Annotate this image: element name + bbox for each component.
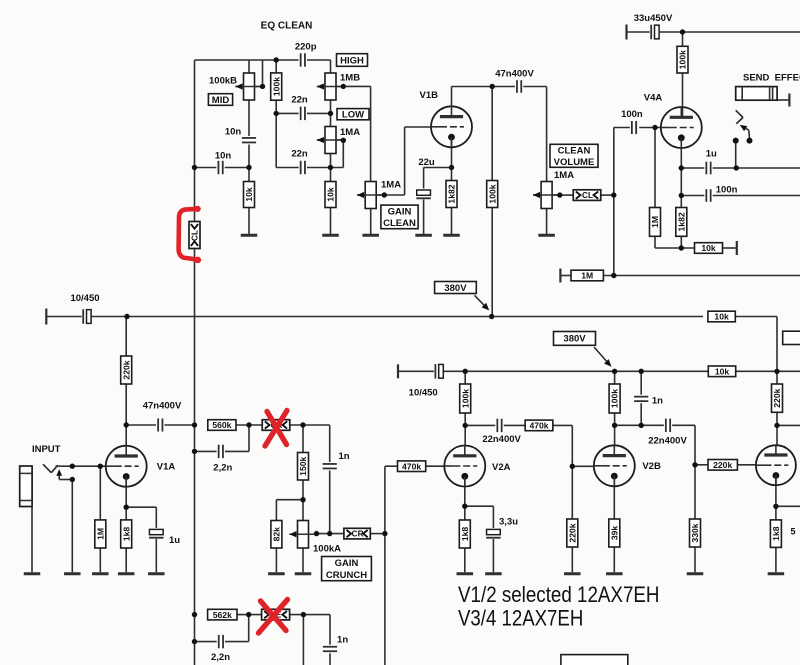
svg-text:1u: 1u	[169, 535, 180, 546]
svg-text:V1/2 selected 12AX7EH: V1/2 selected 12AX7EH	[458, 582, 660, 607]
svg-text:10k: 10k	[714, 312, 729, 322]
svg-text:1M: 1M	[581, 271, 593, 281]
svg-text:10k: 10k	[244, 187, 254, 202]
svg-text:V1B: V1B	[420, 90, 439, 101]
svg-text:220k: 220k	[772, 388, 782, 407]
svg-text:CLEAN: CLEAN	[558, 145, 591, 156]
svg-text:150k: 150k	[298, 456, 308, 475]
svg-text:100k: 100k	[678, 50, 688, 69]
svg-text:1MA: 1MA	[381, 180, 401, 191]
svg-text:V2B: V2B	[642, 461, 661, 472]
svg-text:10k: 10k	[701, 243, 716, 253]
svg-text:V1A: V1A	[157, 462, 176, 473]
svg-text:LOW: LOW	[342, 110, 364, 121]
svg-text:3,3u: 3,3u	[499, 517, 518, 528]
svg-text:22n400V: 22n400V	[482, 434, 521, 445]
svg-text:470k: 470k	[529, 421, 548, 431]
svg-text:100k: 100k	[610, 389, 620, 408]
svg-text:220p: 220p	[295, 41, 317, 52]
svg-text:39k: 39k	[609, 526, 619, 541]
svg-text:CR: CR	[352, 530, 364, 539]
svg-text:SEND EFFECT: SEND EFFECT	[743, 72, 800, 83]
svg-text:22u: 22u	[418, 157, 435, 168]
svg-text:1M: 1M	[650, 216, 660, 228]
svg-text:2,2n: 2,2n	[213, 462, 232, 473]
svg-text:10k: 10k	[326, 187, 336, 202]
svg-text:220k: 220k	[713, 460, 732, 470]
svg-text:HIGH: HIGH	[340, 55, 364, 66]
svg-text:1k8: 1k8	[121, 527, 131, 542]
svg-text:5: 5	[791, 527, 796, 537]
svg-text:CLEAN: CLEAN	[383, 218, 416, 229]
svg-text:1k8: 1k8	[460, 527, 470, 542]
svg-text:CL: CL	[190, 230, 199, 241]
svg-text:47n400V: 47n400V	[143, 400, 182, 411]
svg-text:1n: 1n	[339, 451, 350, 462]
svg-text:1M: 1M	[95, 528, 105, 540]
svg-text:330k: 330k	[690, 523, 700, 542]
svg-text:1k82: 1k82	[447, 184, 457, 203]
svg-text:560k: 560k	[212, 420, 231, 430]
svg-text:10k: 10k	[715, 367, 730, 377]
svg-text:22n: 22n	[291, 148, 308, 159]
svg-text:100n: 100n	[716, 184, 738, 195]
svg-text:22n: 22n	[291, 95, 308, 106]
svg-text:220k: 220k	[567, 523, 577, 542]
svg-text:47n400V: 47n400V	[495, 69, 534, 80]
svg-text:EQ CLEAN: EQ CLEAN	[261, 21, 313, 32]
svg-text:10n: 10n	[225, 127, 242, 138]
svg-text:MID: MID	[212, 95, 230, 106]
svg-text:GAIN: GAIN	[388, 206, 412, 217]
svg-text:33u450V: 33u450V	[634, 13, 673, 24]
svg-text:GAIN: GAIN	[335, 558, 359, 569]
svg-text:22n400V: 22n400V	[648, 435, 687, 446]
svg-text:VOLUME: VOLUME	[554, 157, 595, 168]
svg-text:1n: 1n	[337, 635, 348, 646]
svg-text:100kB: 100kB	[209, 75, 237, 86]
svg-text:380V: 380V	[563, 334, 586, 345]
svg-text:V4A: V4A	[644, 93, 663, 104]
svg-text:V2A: V2A	[492, 462, 511, 473]
svg-text:380V: 380V	[444, 283, 467, 294]
svg-text:82k: 82k	[272, 527, 282, 542]
svg-text:470k: 470k	[402, 461, 421, 471]
svg-text:1k8: 1k8	[771, 526, 781, 541]
svg-text:1MA: 1MA	[340, 127, 360, 138]
svg-text:100kA: 100kA	[313, 544, 341, 555]
svg-text:1k82: 1k82	[676, 212, 686, 231]
svg-text:V3/4 12AX7EH: V3/4 12AX7EH	[458, 606, 583, 631]
svg-text:562k: 562k	[213, 610, 232, 620]
svg-text:100k: 100k	[271, 77, 281, 96]
svg-text:CRUNCH: CRUNCH	[326, 570, 367, 581]
svg-text:1u: 1u	[706, 148, 717, 159]
svg-text:100n: 100n	[621, 109, 643, 120]
svg-text:2,2n: 2,2n	[211, 652, 230, 663]
svg-text:1MA: 1MA	[554, 170, 574, 181]
svg-text:INPUT: INPUT	[32, 444, 61, 455]
svg-text:10n: 10n	[215, 151, 232, 162]
svg-text:100k: 100k	[487, 184, 497, 203]
svg-text:100k: 100k	[460, 389, 470, 408]
svg-text:1MB: 1MB	[340, 73, 360, 84]
svg-text:1n: 1n	[652, 395, 663, 406]
svg-text:10/450: 10/450	[70, 293, 99, 304]
svg-text:220k: 220k	[121, 360, 131, 379]
svg-text:CL: CL	[582, 191, 593, 200]
svg-text:10/450: 10/450	[409, 387, 438, 398]
